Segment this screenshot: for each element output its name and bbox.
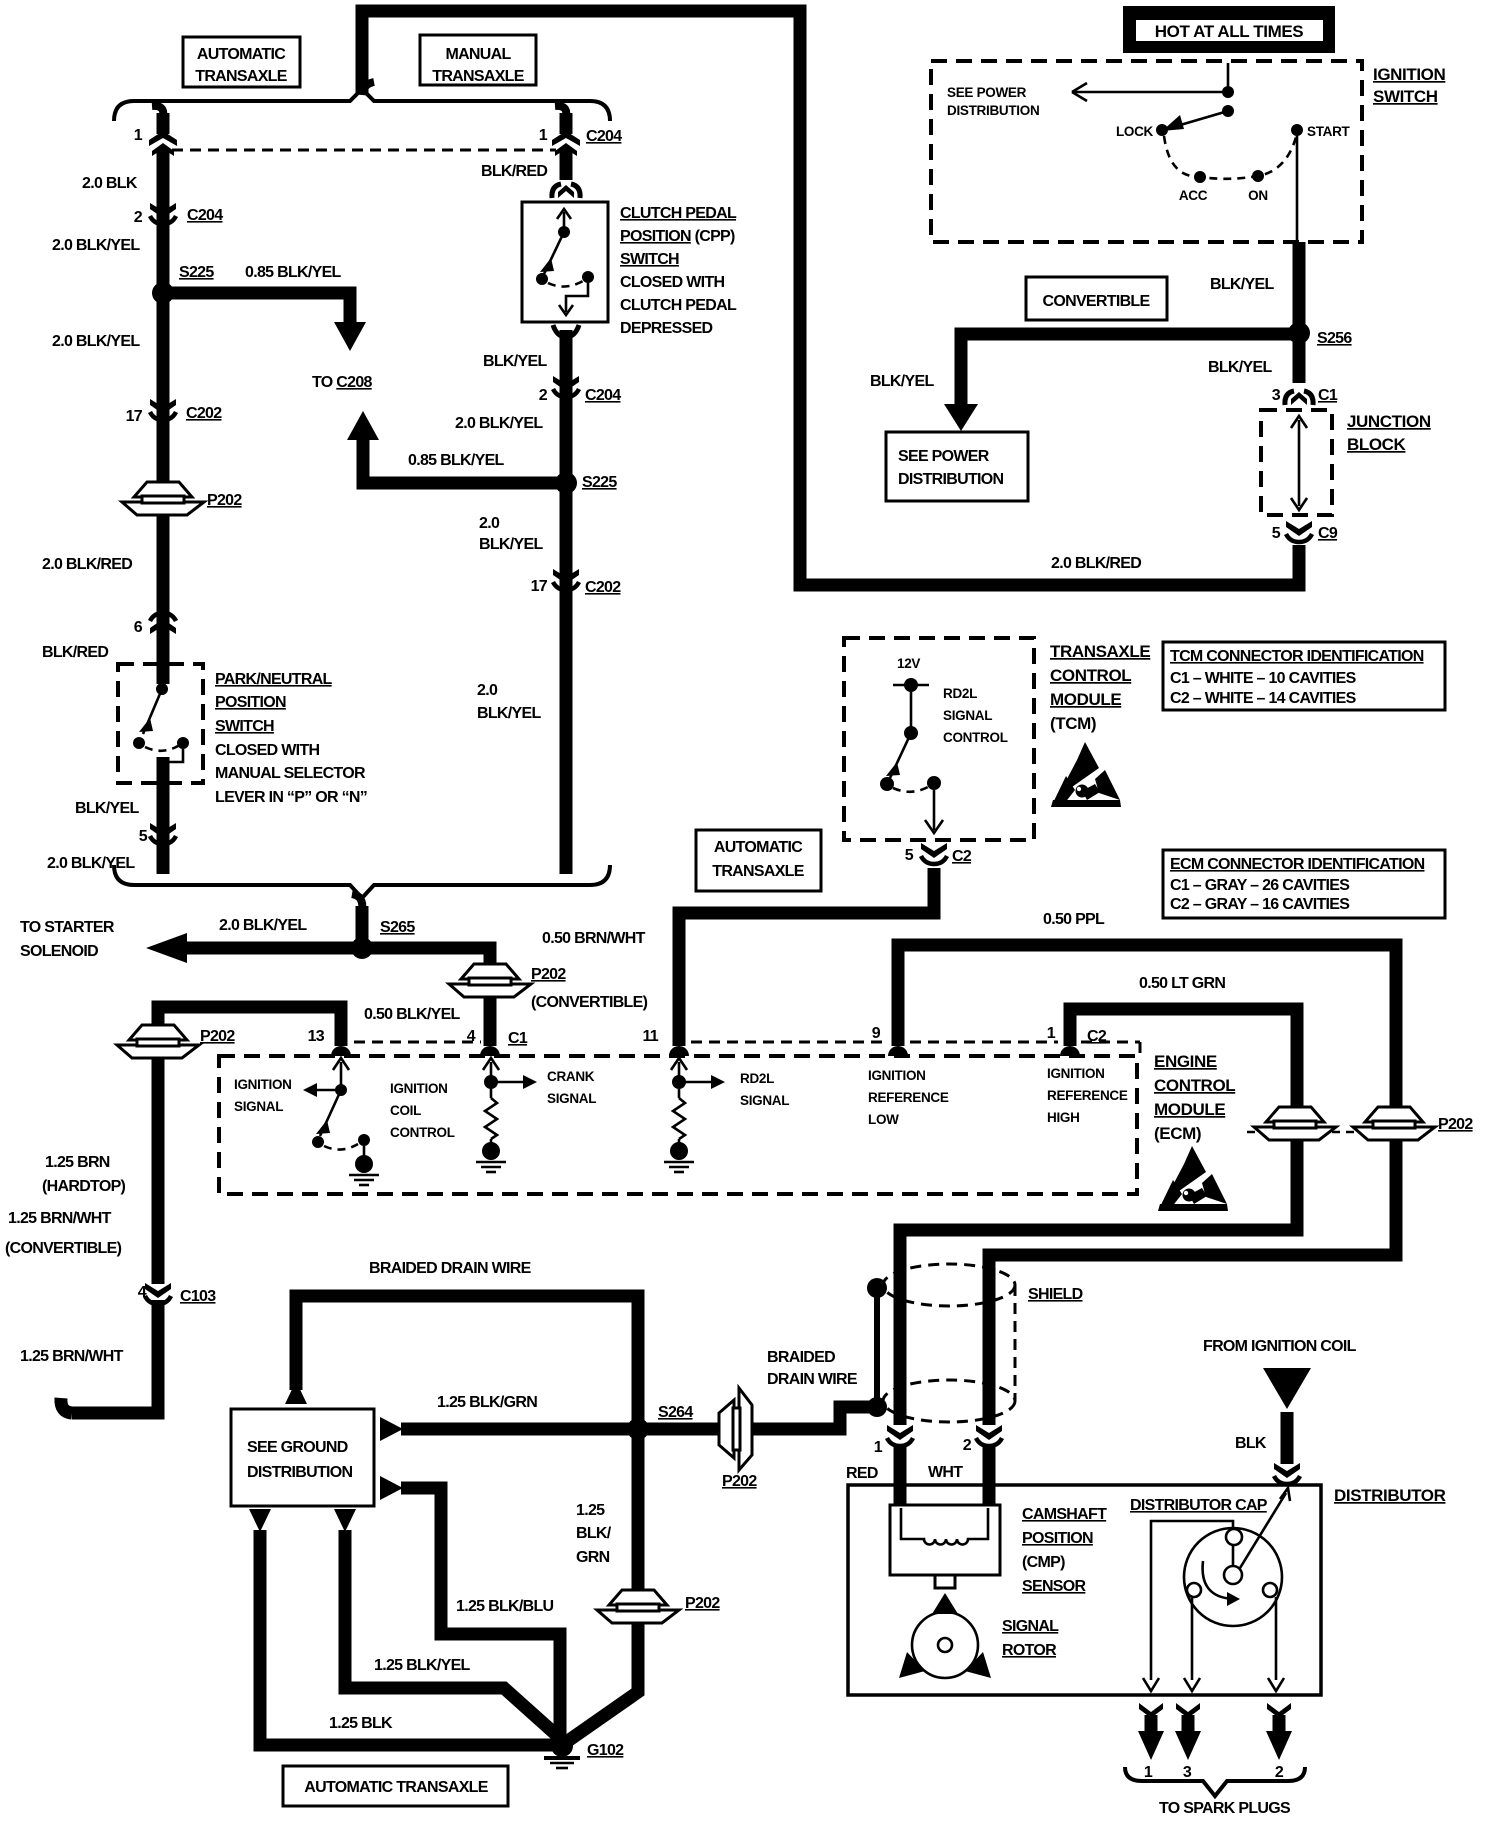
svg-text:REFERENCE: REFERENCE [1047,1088,1128,1103]
svg-text:2: 2 [1275,1764,1284,1781]
svg-text:BLK/RED: BLK/RED [42,644,108,661]
svg-text:5: 5 [905,847,914,864]
svg-text:TCM CONNECTOR IDENTIFICATION: TCM CONNECTOR IDENTIFICATION [1170,648,1424,665]
svg-text:C2 – GRAY – 16 CAVITIES: C2 – GRAY – 16 CAVITIES [1170,896,1350,913]
svg-text:ROTOR: ROTOR [1002,1642,1057,1659]
svg-text:C204: C204 [586,128,622,145]
svg-text:CLUTCH PEDAL: CLUTCH PEDAL [620,297,737,314]
svg-text:TRANSAXLE: TRANSAXLE [432,68,525,85]
svg-text:P202: P202 [200,1028,235,1045]
svg-text:WHT: WHT [928,1464,963,1481]
svg-text:TRANSAXLE: TRANSAXLE [712,863,805,880]
svg-text:SEE POWER: SEE POWER [898,448,990,465]
svg-text:1.25 BRN: 1.25 BRN [45,1154,110,1171]
svg-text:AUTOMATIC TRANSAXLE: AUTOMATIC TRANSAXLE [304,1779,488,1796]
svg-text:DISTRIBUTOR: DISTRIBUTOR [1334,1486,1446,1505]
svg-text:(TCM): (TCM) [1050,714,1096,733]
svg-text:TO C208: TO C208 [312,374,373,391]
svg-text:C1 – WHITE – 10 CAVITIES: C1 – WHITE – 10 CAVITIES [1170,670,1357,687]
svg-text:P202: P202 [531,966,566,983]
svg-text:BLK/YEL: BLK/YEL [1208,359,1272,376]
svg-text:2: 2 [134,209,143,226]
svg-text:C103: C103 [180,1288,216,1305]
svg-text:2.0: 2.0 [479,515,500,532]
svg-text:1: 1 [134,127,143,144]
svg-text:9: 9 [872,1025,881,1042]
svg-text:BLK/YEL: BLK/YEL [483,353,547,370]
svg-text:RD2L: RD2L [740,1071,774,1086]
svg-text:POSITION: POSITION [215,694,286,711]
svg-text:P202: P202 [207,492,242,509]
svg-text:POSITION: POSITION [1022,1530,1093,1547]
svg-text:17: 17 [531,578,548,595]
svg-text:CONTROL: CONTROL [390,1125,455,1140]
svg-text:JUNCTION: JUNCTION [1347,412,1431,431]
svg-text:MODULE: MODULE [1050,690,1121,709]
svg-text:C202: C202 [186,405,222,422]
svg-text:BRAIDED DRAIN WIRE: BRAIDED DRAIN WIRE [369,1260,532,1277]
svg-text:0.85 BLK/YEL: 0.85 BLK/YEL [408,452,505,469]
svg-text:0.50 PPL: 0.50 PPL [1043,911,1105,928]
svg-text:(HARDTOP): (HARDTOP) [42,1178,126,1195]
svg-text:(ECM): (ECM) [1154,1124,1201,1143]
svg-text:P202: P202 [722,1473,757,1490]
svg-text:ECM CONNECTOR IDENTIFICATION: ECM CONNECTOR IDENTIFICATION [1170,856,1425,873]
svg-text:SIGNAL: SIGNAL [547,1091,596,1106]
svg-text:1.25 BRN/WHT: 1.25 BRN/WHT [20,1348,124,1365]
svg-text:RD2L: RD2L [943,686,977,701]
svg-text:4: 4 [467,1028,476,1045]
svg-text:CONTROL: CONTROL [1050,666,1131,685]
svg-text:5: 5 [1272,525,1281,542]
svg-text:IGNITION: IGNITION [390,1081,448,1096]
svg-text:1: 1 [1144,1764,1153,1781]
svg-text:DISTRIBUTION: DISTRIBUTION [947,103,1039,118]
svg-text:CONTROL: CONTROL [943,730,1008,745]
svg-text:BLK/YEL: BLK/YEL [870,373,934,390]
svg-text:MANUAL: MANUAL [445,46,511,63]
svg-text:(CMP): (CMP) [1022,1554,1065,1571]
svg-text:TRANSAXLE: TRANSAXLE [195,68,288,85]
svg-text:(CONVERTIBLE): (CONVERTIBLE) [5,1240,122,1257]
svg-text:LOCK: LOCK [1116,124,1154,139]
svg-text:BLOCK: BLOCK [1347,435,1407,454]
svg-text:CLOSED WITH: CLOSED WITH [620,274,724,291]
svg-text:SIGNAL: SIGNAL [1002,1618,1059,1635]
svg-text:SENSOR: SENSOR [1022,1578,1087,1595]
svg-text:IGNITION: IGNITION [234,1077,292,1092]
svg-text:AUTOMATIC: AUTOMATIC [197,46,286,63]
svg-text:1: 1 [874,1439,883,1456]
svg-text:0.50 BLK/YEL: 0.50 BLK/YEL [364,1006,461,1023]
svg-text:3: 3 [1272,387,1281,404]
svg-text:COIL: COIL [390,1103,421,1118]
svg-text:SEE POWER: SEE POWER [947,85,1027,100]
svg-text:P202: P202 [685,1595,720,1612]
svg-text:CLUTCH PEDAL: CLUTCH PEDAL [620,205,737,222]
svg-text:HIGH: HIGH [1047,1110,1080,1125]
svg-text:SOLENOID: SOLENOID [20,943,98,960]
svg-text:1: 1 [539,127,548,144]
svg-text:1: 1 [1047,1025,1056,1042]
svg-text:S225: S225 [582,474,617,491]
svg-text:SIGNAL: SIGNAL [740,1093,789,1108]
svg-text:ENGINE: ENGINE [1154,1052,1217,1071]
svg-text:2.0 BLK/YEL: 2.0 BLK/YEL [52,237,140,254]
svg-text:2.0: 2.0 [477,682,498,699]
svg-text:2: 2 [963,1437,972,1454]
svg-text:2.0 BLK/RED: 2.0 BLK/RED [1051,555,1141,572]
svg-text:17: 17 [126,408,143,425]
svg-text:2.0 BLK/YEL: 2.0 BLK/YEL [47,855,135,872]
svg-text:1.25 BLK: 1.25 BLK [329,1715,393,1732]
svg-text:CONTROL: CONTROL [1154,1076,1235,1095]
svg-text:IGNITION: IGNITION [1047,1066,1105,1081]
svg-text:ON: ON [1248,188,1268,203]
svg-text:POSITION (CPP): POSITION (CPP) [620,228,735,245]
svg-text:(CONVERTIBLE): (CONVERTIBLE) [531,994,648,1011]
svg-text:DISTRIBUTION: DISTRIBUTION [247,1464,353,1481]
svg-text:C1: C1 [508,1030,528,1047]
svg-text:S264: S264 [658,1404,693,1421]
svg-text:C1 – GRAY – 26 CAVITIES: C1 – GRAY – 26 CAVITIES [1170,877,1350,894]
svg-text:A: A [1282,1387,1294,1404]
svg-text:MANUAL SELECTOR: MANUAL SELECTOR [215,765,366,782]
svg-text:TO STARTER: TO STARTER [20,919,115,936]
svg-text:SIGNAL: SIGNAL [943,708,992,723]
svg-text:TO SPARK PLUGS: TO SPARK PLUGS [1159,1800,1291,1817]
svg-text:BLK/RED: BLK/RED [481,163,547,180]
svg-text:C1: C1 [1318,387,1338,404]
svg-text:1.25 BLK/BLU: 1.25 BLK/BLU [456,1598,554,1615]
svg-text:C9: C9 [1318,525,1338,542]
svg-text:13: 13 [308,1028,325,1045]
svg-text:FROM IGNITION COIL: FROM IGNITION COIL [1203,1338,1357,1355]
svg-text:2.0 BLK/YEL: 2.0 BLK/YEL [219,917,307,934]
svg-text:P202: P202 [1438,1116,1473,1133]
svg-text:2: 2 [539,387,548,404]
svg-text:SIGNAL: SIGNAL [234,1099,283,1114]
svg-text:GRN: GRN [576,1549,610,1566]
svg-text:IGNITION: IGNITION [1373,65,1445,84]
svg-text:BRAIDED: BRAIDED [767,1349,835,1366]
svg-text:RED: RED [846,1465,878,1482]
svg-text:MODULE: MODULE [1154,1100,1225,1119]
svg-text:0.50 LT GRN: 0.50 LT GRN [1139,975,1225,992]
svg-text:DEPRESSED: DEPRESSED [620,320,713,337]
svg-text:6: 6 [134,619,143,636]
svg-text:DRAIN WIRE: DRAIN WIRE [767,1371,858,1388]
svg-text:CLOSED WITH: CLOSED WITH [215,742,319,759]
svg-text:HOT AT ALL TIMES: HOT AT ALL TIMES [1155,22,1304,41]
svg-text:SHIELD: SHIELD [1028,1286,1083,1303]
svg-text:C2: C2 [1087,1028,1107,1045]
svg-text:BLK/YEL: BLK/YEL [1210,276,1274,293]
svg-text:DISTRIBUTOR CAP: DISTRIBUTOR CAP [1130,1497,1268,1514]
svg-text:DISTRIBUTION: DISTRIBUTION [898,471,1004,488]
svg-text:BLK/YEL: BLK/YEL [479,536,543,553]
svg-text:IGNITION: IGNITION [868,1068,926,1083]
svg-text:4: 4 [138,1284,147,1301]
svg-text:0.85 BLK/YEL: 0.85 BLK/YEL [245,264,342,281]
svg-text:SEE GROUND: SEE GROUND [247,1439,348,1456]
svg-text:BLK/YEL: BLK/YEL [477,705,541,722]
svg-text:3: 3 [1183,1764,1192,1781]
svg-text:1.25 BRN/WHT: 1.25 BRN/WHT [8,1210,112,1227]
svg-text:G102: G102 [587,1742,624,1759]
svg-text:SWITCH: SWITCH [1373,87,1438,106]
svg-text:12V: 12V [897,656,920,671]
svg-text:CONVERTIBLE: CONVERTIBLE [1043,293,1151,310]
svg-text:BLK/: BLK/ [576,1525,612,1542]
svg-text:2.0 BLK/RED: 2.0 BLK/RED [42,556,132,573]
svg-text:SWITCH: SWITCH [620,251,679,268]
svg-text:S256: S256 [1317,330,1352,347]
svg-text:TRANSAXLE: TRANSAXLE [1050,642,1150,661]
svg-text:C204: C204 [187,207,223,224]
svg-text:CRANK: CRANK [547,1069,595,1084]
svg-text:CAMSHAFT: CAMSHAFT [1022,1506,1107,1523]
svg-text:S225: S225 [179,264,214,281]
svg-text:5: 5 [139,828,148,845]
svg-text:C204: C204 [585,387,621,404]
svg-text:PARK/NEUTRAL: PARK/NEUTRAL [215,671,333,688]
svg-text:2.0 BLK/YEL: 2.0 BLK/YEL [52,333,140,350]
svg-text:2.0 BLK: 2.0 BLK [82,175,138,192]
svg-text:C2: C2 [952,848,972,865]
svg-text:S265: S265 [380,919,415,936]
svg-text:BLK/YEL: BLK/YEL [75,800,139,817]
svg-text:1.25: 1.25 [576,1502,605,1519]
svg-text:AUTOMATIC: AUTOMATIC [714,839,803,856]
svg-text:LOW: LOW [868,1112,899,1127]
svg-text:1.25 BLK/GRN: 1.25 BLK/GRN [437,1394,537,1411]
svg-text:11: 11 [642,1028,658,1045]
svg-text:REFERENCE: REFERENCE [868,1090,949,1105]
svg-text:LEVER IN “P” OR “N”: LEVER IN “P” OR “N” [215,789,367,806]
svg-text:1.25 BLK/YEL: 1.25 BLK/YEL [374,1657,471,1674]
svg-text:START: START [1307,124,1351,139]
svg-text:2.0 BLK/YEL: 2.0 BLK/YEL [455,415,543,432]
svg-text:0.50 BRN/WHT: 0.50 BRN/WHT [542,930,646,947]
svg-text:BLK: BLK [1235,1435,1267,1452]
svg-text:C202: C202 [585,579,621,596]
svg-text:ACC: ACC [1179,188,1208,203]
svg-text:C2 – WHITE – 14 CAVITIES: C2 – WHITE – 14 CAVITIES [1170,690,1357,707]
svg-text:SWITCH: SWITCH [215,718,274,735]
